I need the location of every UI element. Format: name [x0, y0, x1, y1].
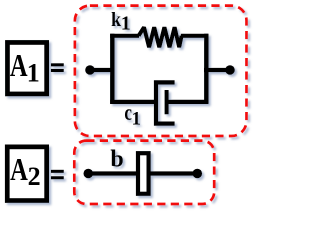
spring k1: [139, 27, 182, 47]
dashed boundary box (element A1 group): [75, 6, 247, 136]
dashed boundary box (element A2 group): [74, 141, 214, 204]
svg-text:2: 2: [28, 162, 41, 191]
wire right mid (A1): [204, 68, 230, 72]
damper c1 cylinder: [156, 82, 175, 123]
left junction bar: [110, 34, 114, 104]
equals sign (A1): [51, 63, 64, 72]
wire top-right branch: [181, 34, 209, 38]
svg-text:1: 1: [27, 58, 40, 87]
wire (A2): [88, 171, 197, 175]
node dot right (A1): [225, 65, 235, 75]
box A1: [7, 42, 46, 93]
node dot left (A1): [85, 65, 95, 75]
svg-text:1: 1: [121, 12, 131, 34]
node dot left (A2): [84, 169, 94, 179]
right junction bar: [204, 34, 208, 104]
wire left mid (A1): [90, 68, 114, 72]
damper c1 rod / wire bottom-right branch: [167, 100, 209, 104]
svg-text:A: A: [10, 47, 28, 83]
damper c1 piston: [165, 90, 169, 114]
label c1: [124, 100, 141, 130]
svg-text:b: b: [110, 147, 123, 173]
wire bottom-left branch: [110, 100, 156, 104]
wire top-left branch: [110, 34, 139, 38]
svg-text:1: 1: [132, 109, 142, 130]
node dot right (A2): [193, 169, 203, 179]
equals sign (A2): [51, 170, 64, 180]
block b: [138, 153, 149, 194]
svg-text:A: A: [10, 151, 28, 187]
box A2: [7, 147, 46, 201]
label k1: [111, 9, 131, 34]
